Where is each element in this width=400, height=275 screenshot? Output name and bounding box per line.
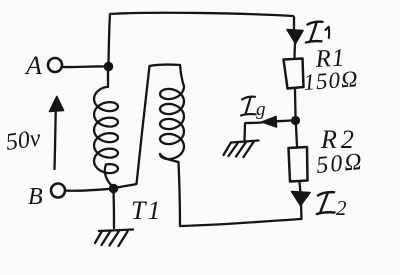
svg-text:A: A: [24, 51, 42, 80]
wire: primary bottom tail to node B junction: [105, 165, 112, 187]
ground (left, below T1 junction): [95, 192, 133, 246]
svg-text:B: B: [28, 184, 43, 210]
svg-text:150Ω: 150Ω: [303, 66, 360, 95]
svg-text:2: 2: [336, 196, 347, 220]
svg-text:T1: T1: [131, 196, 162, 225]
current arrow I2: [292, 182, 311, 219]
wire: T1 secondary top lead: [150, 65, 181, 66]
wire: R1 to Ig node: [294, 89, 297, 116]
inductor T1 primary winding: [94, 66, 118, 173]
wire: bottom rail: [180, 219, 301, 226]
terminal B circle: [51, 184, 65, 198]
label I2: [317, 192, 335, 214]
current arrow I1: [287, 17, 303, 58]
svg-text:g: g: [256, 99, 266, 120]
wire: terminal A to junction: [63, 65, 104, 68]
wire: Ig node down to R2: [296, 125, 297, 147]
node B junction dot: [109, 184, 119, 194]
wire: top rail: [110, 13, 293, 16]
current arrow Ig: [246, 117, 292, 128]
ground (Ig branch): [224, 124, 259, 158]
label I1: [306, 22, 329, 43]
terminal A circle: [48, 58, 62, 72]
node Ig junction dot: [291, 116, 300, 125]
svg-text:50v: 50v: [4, 125, 42, 156]
wire: left drop from top rail to node A junction: [109, 14, 111, 63]
svg-text:50Ω: 50Ω: [315, 149, 364, 179]
wire: terminal B to junction: [65, 189, 109, 191]
50v source arrow: [50, 97, 64, 170]
inductor T1 secondary winding: [160, 65, 184, 159]
wire: secondary bottom tail down to bottom rail: [160, 154, 180, 226]
label Ig: [241, 97, 256, 116]
wire: node B junction to T1 secondary (autotransformer link): [117, 66, 150, 188]
resistor R2: [289, 147, 308, 182]
node A junction dot: [104, 62, 114, 72]
resistor R1: [284, 59, 304, 89]
